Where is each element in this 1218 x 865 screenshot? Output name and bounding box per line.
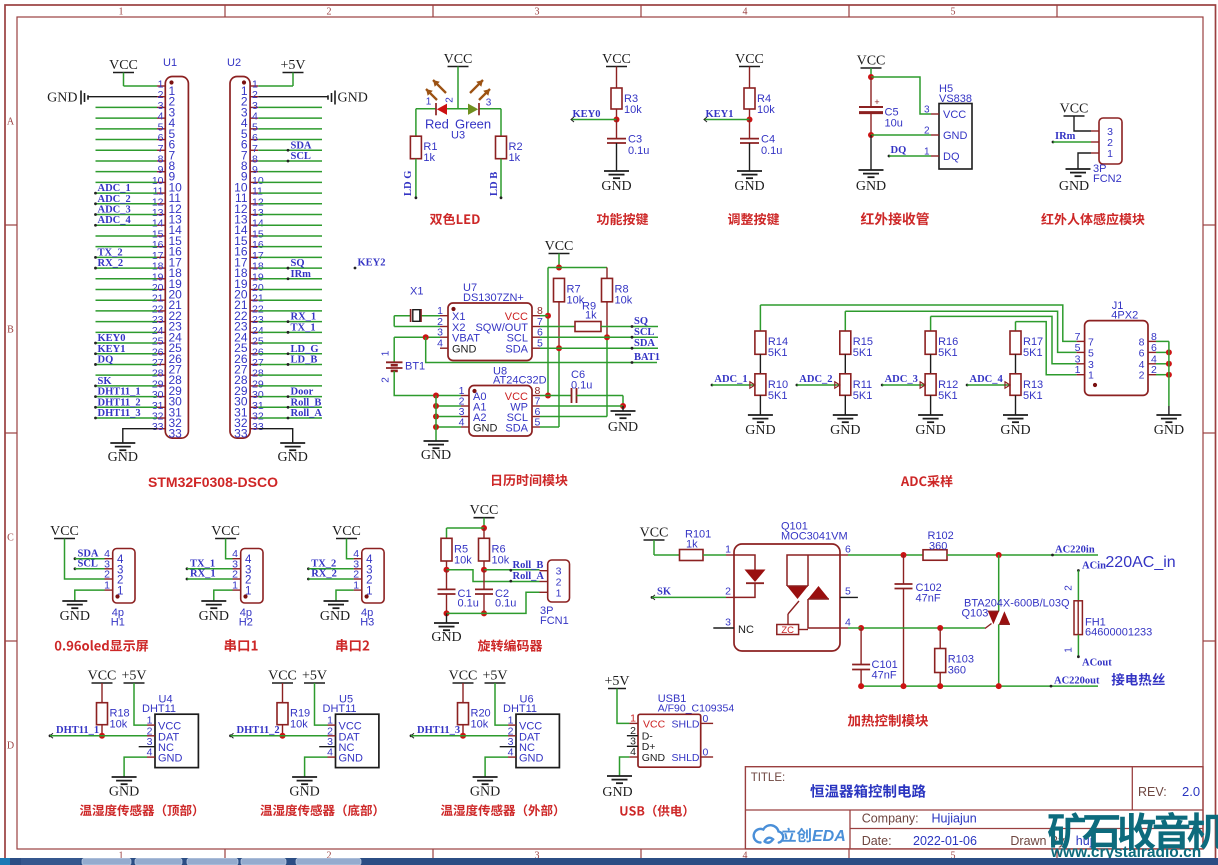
svg-text:Roll_B: Roll_B xyxy=(291,397,322,408)
svg-text:GND: GND xyxy=(339,753,364,765)
svg-text:33: 33 xyxy=(252,421,264,433)
svg-text:47nF: 47nF xyxy=(916,593,941,605)
svg-text:64600001233: 64600001233 xyxy=(1085,627,1152,639)
svg-text:VCC: VCC xyxy=(470,503,499,518)
svg-text:SCL: SCL xyxy=(78,559,98,570)
svg-text:ADC_1: ADC_1 xyxy=(98,183,131,194)
svg-text:2: 2 xyxy=(1064,585,1075,591)
svg-text:SK: SK xyxy=(657,587,672,598)
svg-text:1: 1 xyxy=(119,7,124,18)
svg-text:1k: 1k xyxy=(509,152,521,164)
svg-text:SCL: SCL xyxy=(291,151,311,162)
svg-text:3: 3 xyxy=(924,105,930,116)
svg-text:5K1: 5K1 xyxy=(1023,347,1043,359)
svg-text:1: 1 xyxy=(1075,364,1081,376)
svg-text:GND: GND xyxy=(431,630,461,645)
svg-text:VCC: VCC xyxy=(444,52,473,67)
svg-text:GND: GND xyxy=(289,785,319,800)
svg-text:GND: GND xyxy=(608,420,638,435)
svg-text:DHT11_3: DHT11_3 xyxy=(417,725,460,736)
svg-text:4: 4 xyxy=(437,338,443,350)
svg-text:DHT11: DHT11 xyxy=(323,703,357,715)
svg-text:1: 1 xyxy=(353,580,359,592)
svg-text:ADC_2: ADC_2 xyxy=(98,194,131,205)
svg-text:MOC3041VM: MOC3041VM xyxy=(781,531,848,543)
svg-text:+: + xyxy=(874,97,879,107)
svg-text:0: 0 xyxy=(703,713,709,725)
svg-text:ADC_3: ADC_3 xyxy=(98,205,131,216)
svg-text:2.0: 2.0 xyxy=(1182,784,1200,799)
svg-text:5K1: 5K1 xyxy=(768,390,788,402)
svg-text:VCC: VCC xyxy=(640,526,669,541)
svg-text:KEY1: KEY1 xyxy=(98,344,126,355)
svg-text:GND: GND xyxy=(856,179,886,194)
svg-text:VCC: VCC xyxy=(88,669,117,684)
svg-text:0.1u: 0.1u xyxy=(495,598,516,610)
svg-text:KEY1: KEY1 xyxy=(706,109,734,120)
svg-text:RX_1: RX_1 xyxy=(291,312,317,323)
svg-text:2: 2 xyxy=(725,586,731,598)
svg-text:5: 5 xyxy=(1088,347,1094,359)
svg-text:RX_2: RX_2 xyxy=(311,569,337,580)
svg-text:6: 6 xyxy=(1139,347,1145,359)
svg-text:AC220out: AC220out xyxy=(1054,676,1100,687)
svg-text:10k: 10k xyxy=(624,104,642,116)
svg-text:GND: GND xyxy=(734,179,764,194)
svg-text:3: 3 xyxy=(486,98,492,109)
svg-text:2: 2 xyxy=(1151,364,1157,376)
svg-text:SDA: SDA xyxy=(505,344,528,356)
svg-text:X1: X1 xyxy=(410,286,423,298)
svg-text:A/F90_C109354: A/F90_C109354 xyxy=(658,703,735,715)
svg-text:4: 4 xyxy=(147,747,153,759)
svg-text:+5V: +5V xyxy=(482,669,507,684)
svg-text:VCC: VCC xyxy=(109,58,138,73)
svg-text:10k: 10k xyxy=(757,104,775,116)
svg-text:47nF: 47nF xyxy=(872,670,897,682)
svg-text:ACout: ACout xyxy=(1082,658,1112,669)
svg-text:FCN1: FCN1 xyxy=(540,615,569,627)
svg-text:2: 2 xyxy=(381,377,392,383)
svg-text:SQ: SQ xyxy=(291,258,305,269)
svg-text:SQ: SQ xyxy=(634,316,648,327)
svg-text:VCC: VCC xyxy=(50,524,79,539)
svg-text:Hujiajun: Hujiajun xyxy=(932,812,977,826)
svg-text:GND: GND xyxy=(452,344,477,356)
svg-text:4PX2: 4PX2 xyxy=(1111,310,1138,322)
svg-text:TX_1: TX_1 xyxy=(291,322,316,333)
svg-text:GND: GND xyxy=(1000,423,1030,438)
svg-text:DHT11: DHT11 xyxy=(503,703,537,715)
svg-text:DHT11_1: DHT11_1 xyxy=(56,725,99,736)
svg-text:+5V: +5V xyxy=(302,669,327,684)
svg-text:6: 6 xyxy=(845,544,851,556)
svg-text:SHLD: SHLD xyxy=(671,752,699,764)
svg-text:0.1u: 0.1u xyxy=(458,598,479,610)
svg-text:VCC: VCC xyxy=(545,239,574,254)
svg-text:5K1: 5K1 xyxy=(853,347,873,359)
svg-text:GND: GND xyxy=(108,450,138,465)
svg-text:C3: C3 xyxy=(628,134,642,146)
svg-text:A: A xyxy=(7,117,15,128)
svg-text:RX_1: RX_1 xyxy=(190,569,216,580)
svg-text:GND: GND xyxy=(60,609,90,624)
svg-text:GND: GND xyxy=(601,179,631,194)
svg-text:10k: 10k xyxy=(471,719,489,731)
svg-text:Q103: Q103 xyxy=(962,608,989,620)
svg-text:1: 1 xyxy=(630,713,636,725)
svg-text:ADC_2: ADC_2 xyxy=(799,374,832,385)
svg-text:BAT1: BAT1 xyxy=(634,352,660,363)
svg-text:0: 0 xyxy=(703,747,709,759)
svg-text:33: 33 xyxy=(169,427,183,441)
svg-text:4: 4 xyxy=(508,747,514,759)
svg-text:4: 4 xyxy=(630,746,636,758)
svg-text:1: 1 xyxy=(1088,370,1094,382)
svg-text:ADC_3: ADC_3 xyxy=(885,374,918,385)
svg-text:DHT11_3: DHT11_3 xyxy=(98,408,141,419)
svg-text:33: 33 xyxy=(152,421,164,433)
svg-text:Company:: Company: xyxy=(862,812,919,826)
svg-text:GND: GND xyxy=(915,423,945,438)
svg-text:5K1: 5K1 xyxy=(853,390,873,402)
svg-text:1: 1 xyxy=(556,587,562,599)
svg-text:LD_B: LD_B xyxy=(291,354,318,365)
svg-text:GND: GND xyxy=(338,91,368,106)
svg-text:Red: Red xyxy=(425,117,449,132)
svg-text:VS838: VS838 xyxy=(939,93,972,105)
svg-text:VCC: VCC xyxy=(643,719,666,731)
svg-text:Date:: Date: xyxy=(862,834,892,848)
svg-text:SDA: SDA xyxy=(634,338,655,349)
svg-text:GND: GND xyxy=(1059,179,1089,194)
svg-text:VCC: VCC xyxy=(943,109,966,121)
svg-text:ZC: ZC xyxy=(781,625,794,636)
svg-text:KEY0: KEY0 xyxy=(573,109,601,120)
svg-text:DQ: DQ xyxy=(943,151,960,163)
svg-text:DHT11_2: DHT11_2 xyxy=(98,397,141,408)
svg-text:+5V: +5V xyxy=(280,58,305,73)
svg-text:GND: GND xyxy=(1154,423,1184,438)
svg-text:GND: GND xyxy=(47,91,77,106)
svg-text:5: 5 xyxy=(951,7,956,18)
svg-text:VCC: VCC xyxy=(449,669,478,684)
svg-text:GND: GND xyxy=(830,423,860,438)
svg-text:U3: U3 xyxy=(451,130,465,142)
svg-text:LD B: LD B xyxy=(489,172,500,196)
svg-text:+5V: +5V xyxy=(604,674,629,689)
svg-text:B: B xyxy=(7,325,14,336)
svg-text:GND: GND xyxy=(199,609,229,624)
svg-text:GND: GND xyxy=(602,785,632,800)
svg-text:10u: 10u xyxy=(885,118,903,130)
svg-text:IRm: IRm xyxy=(291,269,312,280)
svg-text:RX_2: RX_2 xyxy=(98,258,124,269)
svg-text:1: 1 xyxy=(1064,647,1075,653)
svg-text:ACin: ACin xyxy=(1082,561,1106,572)
svg-text:DHT11_2: DHT11_2 xyxy=(237,725,280,736)
svg-text:U1: U1 xyxy=(163,57,177,69)
svg-text:C4: C4 xyxy=(761,134,775,146)
svg-text:220AC_in: 220AC_in xyxy=(1105,554,1175,571)
svg-text:1: 1 xyxy=(725,544,731,556)
svg-text:2: 2 xyxy=(445,97,456,103)
svg-text:TITLE:: TITLE: xyxy=(751,772,786,784)
svg-text:10k: 10k xyxy=(290,719,308,731)
svg-text:5K1: 5K1 xyxy=(938,347,958,359)
svg-text:1: 1 xyxy=(104,580,110,592)
svg-text:VCC: VCC xyxy=(211,524,240,539)
svg-text:EDA: EDA xyxy=(812,828,846,845)
svg-text:DQ: DQ xyxy=(891,145,907,156)
svg-text:360: 360 xyxy=(929,541,947,553)
svg-text:33: 33 xyxy=(234,427,248,441)
svg-text:SHLD: SHLD xyxy=(671,719,699,731)
svg-text:KEY2: KEY2 xyxy=(358,258,386,269)
svg-text:1: 1 xyxy=(381,350,392,356)
svg-text:GND: GND xyxy=(745,423,775,438)
svg-text:H1: H1 xyxy=(111,617,125,629)
svg-text:GND: GND xyxy=(519,753,544,765)
svg-text:NC: NC xyxy=(738,624,754,636)
svg-text:TX_2: TX_2 xyxy=(98,247,123,258)
svg-text:LD_G: LD_G xyxy=(291,344,319,355)
svg-text:REV:: REV: xyxy=(1138,785,1167,799)
svg-text:DS1307ZN+: DS1307ZN+ xyxy=(463,292,524,304)
svg-text:5K1: 5K1 xyxy=(768,347,788,359)
svg-text:0.1u: 0.1u xyxy=(571,380,592,392)
svg-text:5K1: 5K1 xyxy=(938,390,958,402)
svg-text:Roll_A: Roll_A xyxy=(291,408,323,419)
svg-text:3: 3 xyxy=(535,7,540,18)
svg-text:GND: GND xyxy=(278,450,308,465)
svg-text:H3: H3 xyxy=(360,617,374,629)
svg-text:Roll_B: Roll_B xyxy=(513,560,544,571)
svg-text:DHT11_1: DHT11_1 xyxy=(98,387,141,398)
svg-text:SK: SK xyxy=(98,376,113,387)
svg-text:4: 4 xyxy=(327,747,333,759)
svg-text:U2: U2 xyxy=(227,57,241,69)
svg-text:ADC_1: ADC_1 xyxy=(714,374,747,385)
svg-text:3: 3 xyxy=(725,617,731,629)
svg-text:2: 2 xyxy=(924,126,930,137)
svg-text:ADC_4: ADC_4 xyxy=(970,374,1004,385)
svg-text:LD G: LD G xyxy=(403,171,414,196)
svg-text:1k: 1k xyxy=(585,310,597,322)
svg-text:VCC: VCC xyxy=(268,669,297,684)
svg-text:SDA: SDA xyxy=(291,140,312,151)
svg-text:DHT11: DHT11 xyxy=(142,703,176,715)
svg-text:5: 5 xyxy=(535,417,541,429)
svg-text:SCL: SCL xyxy=(634,327,654,338)
svg-text:4: 4 xyxy=(743,7,748,18)
svg-text:360: 360 xyxy=(948,665,966,677)
svg-text:AC220in: AC220in xyxy=(1055,545,1095,556)
svg-text:6: 6 xyxy=(1151,342,1157,354)
svg-text:GND: GND xyxy=(421,448,451,463)
svg-text:10k: 10k xyxy=(492,554,510,566)
svg-text:4: 4 xyxy=(845,617,851,629)
svg-text:DQ: DQ xyxy=(98,354,114,365)
svg-text:H2: H2 xyxy=(239,617,253,629)
svg-text:GND: GND xyxy=(470,785,500,800)
svg-text:10k: 10k xyxy=(110,719,128,731)
svg-text:GND: GND xyxy=(158,753,183,765)
svg-text:GND: GND xyxy=(109,785,139,800)
svg-text:VCC: VCC xyxy=(857,54,886,69)
svg-text:GND: GND xyxy=(320,609,350,624)
svg-text:0.1u: 0.1u xyxy=(761,145,782,157)
svg-text:2: 2 xyxy=(327,7,332,18)
svg-text:2: 2 xyxy=(1139,370,1145,382)
svg-text:5: 5 xyxy=(845,586,851,598)
svg-text:0.1u: 0.1u xyxy=(628,145,649,157)
svg-text:VCC: VCC xyxy=(735,52,764,67)
svg-text:10k: 10k xyxy=(615,294,633,306)
svg-text:FCN2: FCN2 xyxy=(1093,173,1122,185)
svg-text:ADC_4: ADC_4 xyxy=(98,215,132,226)
svg-text:1k: 1k xyxy=(423,152,435,164)
svg-text:2022-01-06: 2022-01-06 xyxy=(913,834,977,848)
svg-text:SDA: SDA xyxy=(505,423,528,435)
svg-text:IRm: IRm xyxy=(1055,131,1076,142)
svg-text:10k: 10k xyxy=(454,554,472,566)
svg-text:VCC: VCC xyxy=(602,52,631,67)
svg-text:+5V: +5V xyxy=(121,669,146,684)
svg-text:5K1: 5K1 xyxy=(1023,390,1043,402)
svg-text:1: 1 xyxy=(1107,148,1113,160)
svg-text:BT1: BT1 xyxy=(405,361,425,373)
svg-text:GND: GND xyxy=(642,752,666,764)
svg-text:VCC: VCC xyxy=(332,524,361,539)
svg-text:KEY0: KEY0 xyxy=(98,333,126,344)
svg-text:Roll_A: Roll_A xyxy=(513,571,545,582)
svg-text:1: 1 xyxy=(426,97,432,108)
svg-text:C: C xyxy=(7,533,14,544)
svg-text:D: D xyxy=(7,741,14,752)
svg-text:1: 1 xyxy=(232,580,238,592)
svg-text:GND: GND xyxy=(473,423,498,435)
svg-text:GND: GND xyxy=(943,130,968,142)
svg-text:Door: Door xyxy=(291,387,314,398)
svg-text:5: 5 xyxy=(1075,342,1081,354)
svg-text:1k: 1k xyxy=(686,539,698,551)
svg-text:VCC: VCC xyxy=(1060,102,1089,117)
svg-text:STM32F0308-DSCO: STM32F0308-DSCO xyxy=(148,474,278,490)
